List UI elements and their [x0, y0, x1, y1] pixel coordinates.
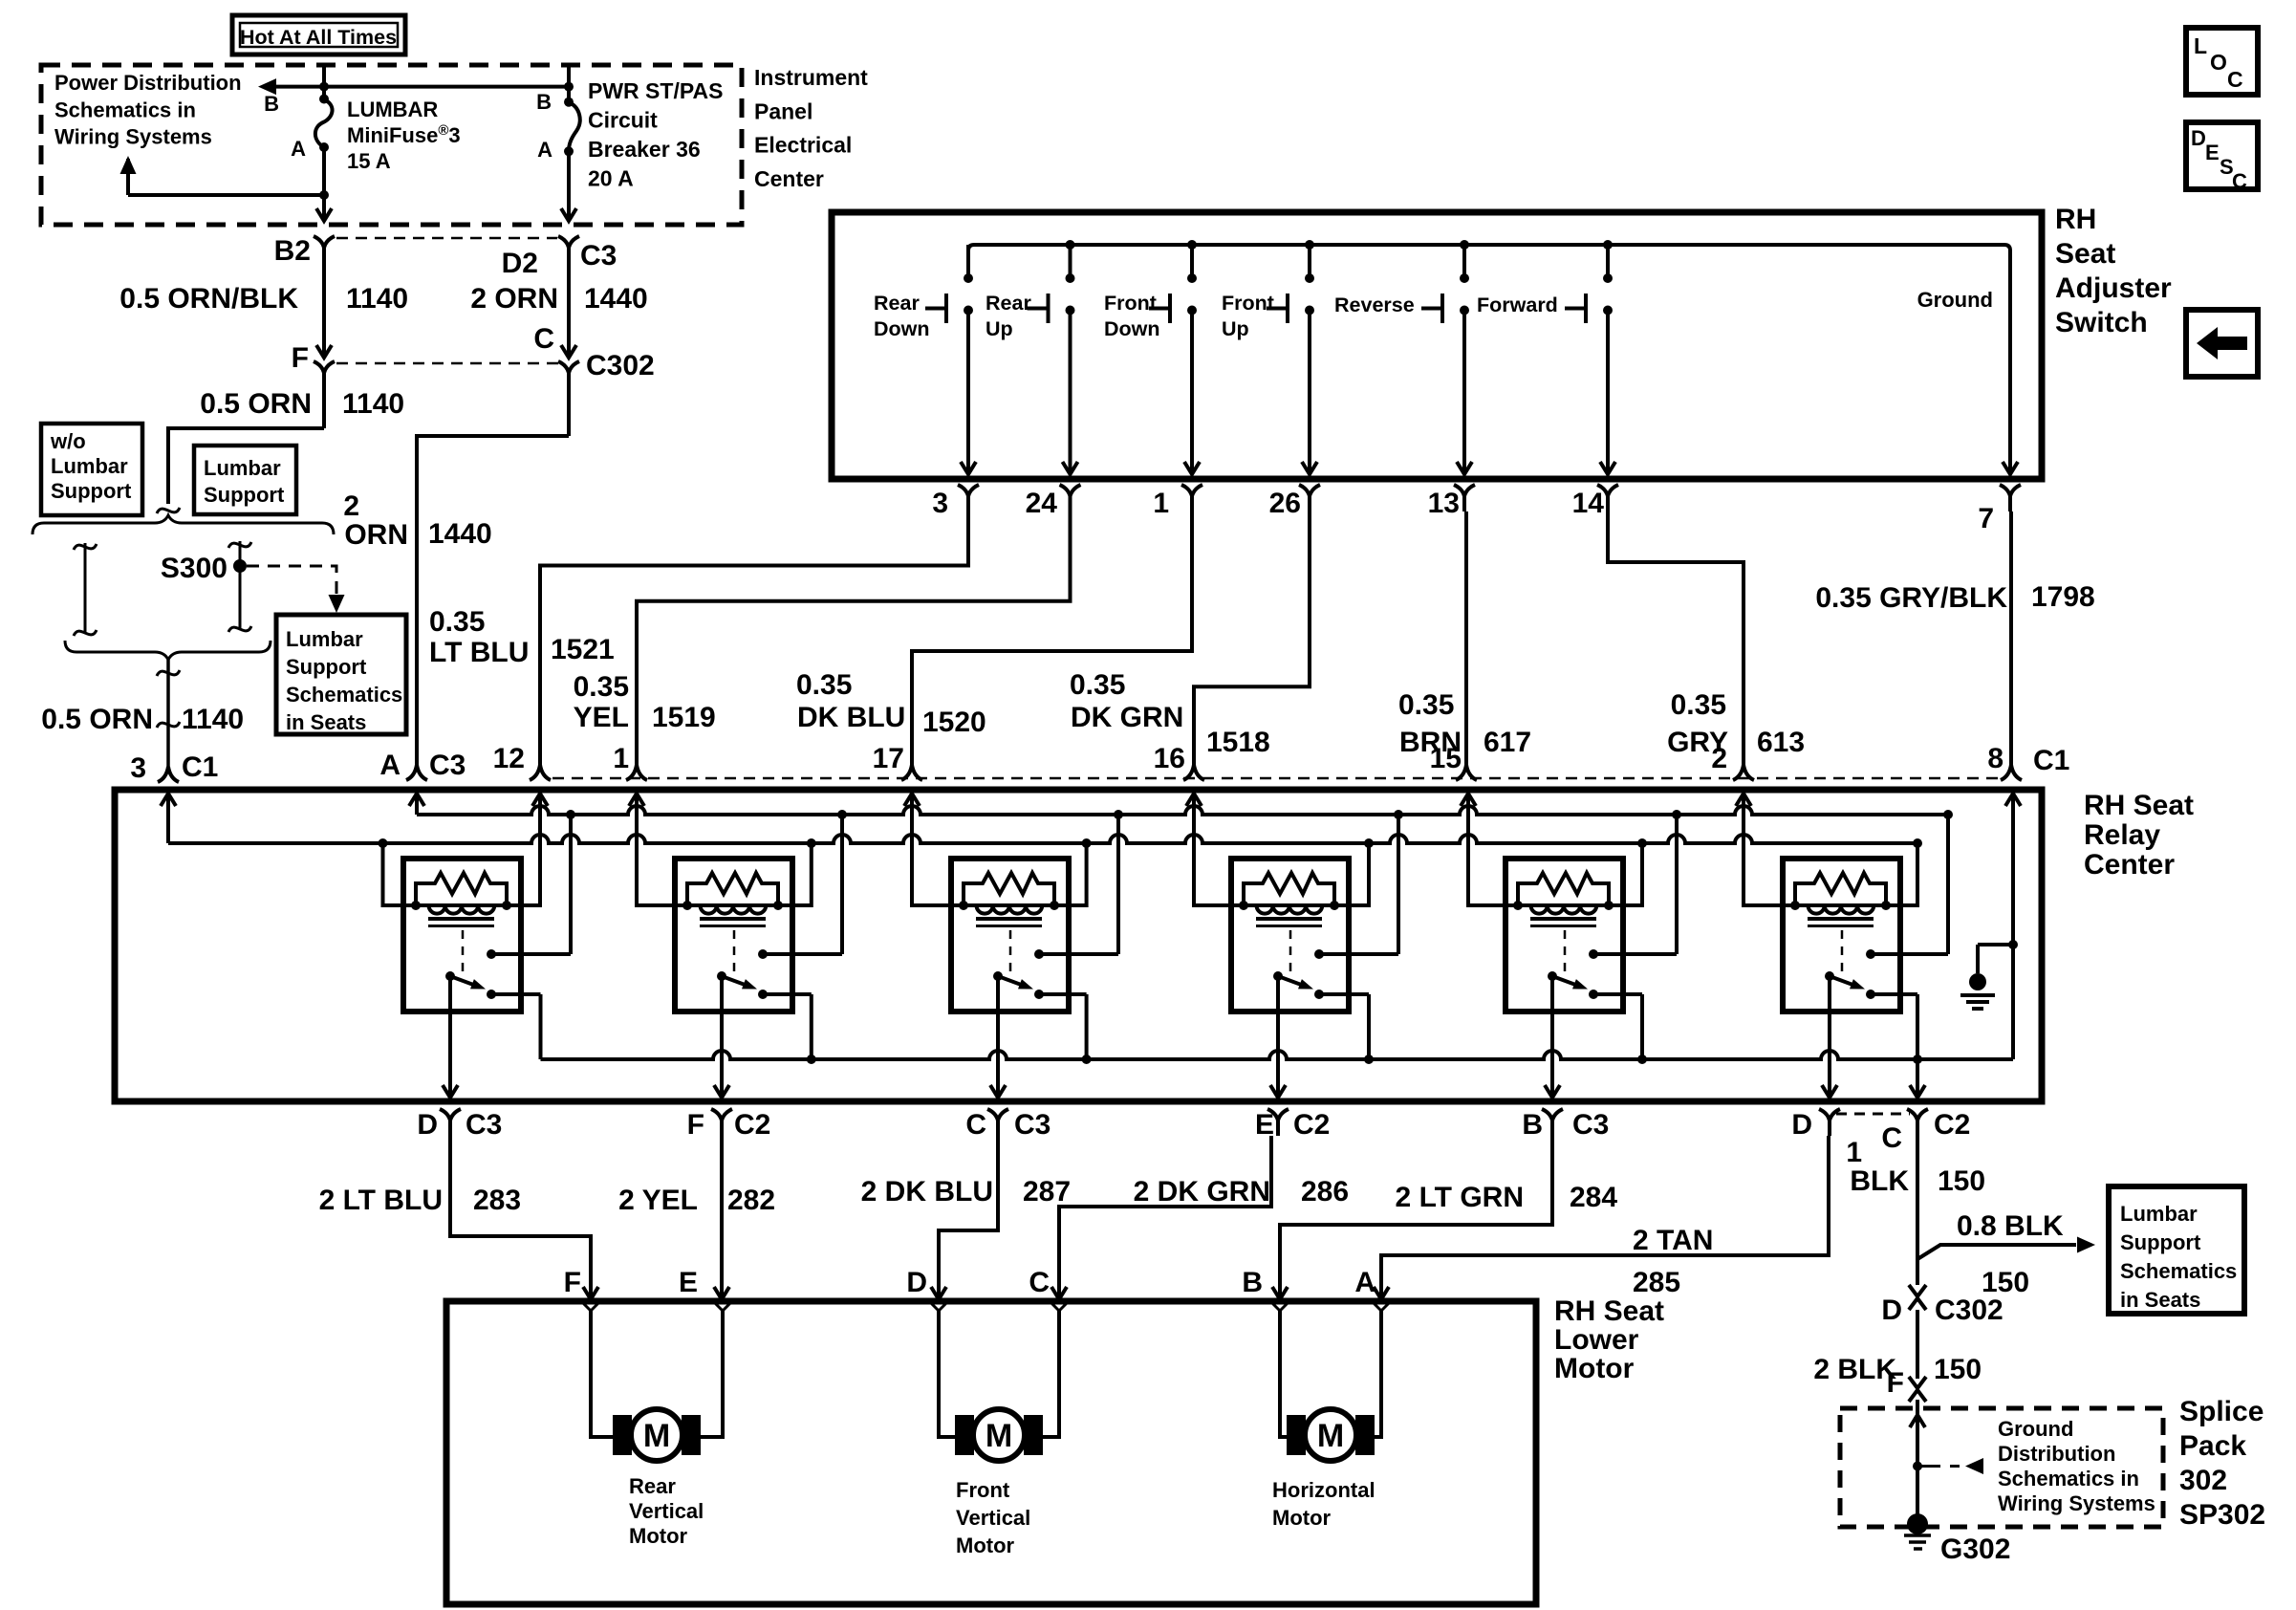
relay K1 movable arm	[445, 971, 455, 981]
svg-text:B: B	[264, 92, 279, 116]
wire: pin feed to K5 coil left	[1468, 794, 1518, 905]
svg-text:0.35: 0.35	[574, 671, 629, 703]
svg-text:C: C	[1029, 1267, 1050, 1298]
arrow: into F	[316, 345, 332, 358]
svg-text:E: E	[679, 1267, 698, 1298]
svg-text:RH Seat: RH Seat	[1554, 1295, 1664, 1327]
svg-text:ORN: ORN	[344, 519, 408, 551]
box: RH Seat Adjuster Switch	[832, 212, 2042, 479]
connector: relay center pin 15	[1456, 765, 1477, 780]
switch S4 actuator	[1286, 294, 1289, 323]
connector: relay center pin 12	[530, 765, 551, 780]
ground symbol in relay center	[1978, 943, 2013, 946]
arrow: C2 ground output	[1916, 1059, 1919, 1096]
wire: pin feed to K4 coil left	[1194, 794, 1244, 905]
wire: pin 26 to connector 16 (0.35 DK GRN 1518)	[1194, 511, 1310, 765]
relay K2 coil	[687, 903, 778, 907]
relay K6 fixed contact	[1866, 949, 1875, 959]
switch S3 Front Down contacts	[1190, 245, 1194, 278]
svg-text:287: 287	[1023, 1176, 1071, 1207]
wire: pin 12 to K1 coil right	[507, 794, 540, 905]
svg-text:RH Seat: RH Seat	[2084, 790, 2194, 821]
wire: feeder2 drop to K2 coil right	[778, 843, 812, 905]
svg-text:Forward: Forward	[1477, 294, 1558, 316]
arrow: into lumbar support schematics box	[2077, 1237, 2095, 1253]
svg-text:F: F	[1887, 1367, 1904, 1399]
svg-text:1140: 1140	[346, 283, 408, 315]
relay K2 movable arm	[717, 971, 726, 981]
svg-text:C: C	[1881, 1122, 1902, 1154]
svg-text:Lower: Lower	[1554, 1324, 1639, 1356]
svg-text:C1: C1	[182, 751, 218, 783]
junction dots feeder2	[379, 838, 388, 848]
svg-text:PWR ST/PAS: PWR ST/PAS	[588, 78, 723, 103]
connector C C302	[558, 361, 579, 373]
motor M1 feed wires	[591, 1311, 614, 1437]
svg-text:Support: Support	[2120, 1230, 2201, 1254]
svg-text:M: M	[643, 1418, 670, 1454]
svg-text:2 DK GRN: 2 DK GRN	[1134, 1176, 1270, 1207]
arrow: switch S1 pin exit	[961, 462, 976, 474]
wire: D C3 to motor F (2 LT BLU 283)	[450, 1136, 591, 1297]
wire: fixed drop from feeder1 K5	[1675, 815, 1679, 954]
svg-text:D: D	[2191, 126, 2206, 150]
svg-text:Pack: Pack	[2179, 1430, 2246, 1462]
arrow: pin entry at x=666	[629, 794, 644, 806]
arrow: switch S3 pin exit	[1184, 462, 1200, 474]
connector: switch pin 1	[1181, 485, 1202, 496]
switch S3 actuator	[1168, 294, 1172, 323]
svg-text:1140: 1140	[342, 388, 404, 420]
arrow: wire into C3	[561, 208, 576, 221]
switch S2 actuator	[1047, 294, 1051, 323]
arrow: into motor D	[931, 1287, 946, 1299]
junction: bus tap switch 5	[1460, 240, 1469, 250]
connector: output F at x=755	[711, 1109, 732, 1120]
relay K2 resistor	[687, 873, 778, 905]
svg-text:0.35: 0.35	[1398, 689, 1454, 721]
svg-text:Lumbar: Lumbar	[286, 627, 363, 651]
svg-text:Center: Center	[2084, 849, 2175, 881]
brace upper	[32, 515, 334, 534]
wire: K4 output	[1276, 976, 1280, 1096]
junction: splice S302	[1913, 1462, 1922, 1471]
svg-text:C3: C3	[466, 1109, 502, 1141]
arrow: into motor C	[1051, 1287, 1067, 1299]
wire: B2 to F	[322, 275, 326, 356]
svg-text:1: 1	[613, 743, 629, 774]
svg-text:2 TAN: 2 TAN	[1633, 1225, 1713, 1256]
wire: K2 arm to collection line	[810, 994, 813, 1059]
switch S5 Reverse contacts	[1462, 245, 1466, 278]
svg-text:Hot At All Times: Hot At All Times	[240, 26, 397, 49]
relay K2 armature link	[733, 930, 736, 971]
svg-text:E: E	[2205, 141, 2220, 164]
svg-text:Rear: Rear	[986, 292, 1031, 315]
wire: fixed drop from feeder1 K1	[569, 815, 573, 954]
connector: output C2 ground	[1907, 1109, 1928, 1120]
svg-text:Schematics in: Schematics in	[1998, 1467, 2139, 1490]
junction dots feeder1	[566, 810, 575, 819]
connector C3 at D2	[558, 236, 579, 248]
svg-text:A: A	[291, 137, 306, 161]
connector F into splice pack	[1909, 1377, 1926, 1388]
relay K3 core	[976, 917, 1042, 921]
svg-text:2: 2	[343, 490, 359, 522]
svg-text:7: 7	[1978, 503, 1994, 534]
svg-text:1521: 1521	[551, 634, 615, 665]
svg-text:Adjuster: Adjuster	[2055, 272, 2172, 304]
wire: C302 to A C3	[417, 436, 569, 765]
wire: pin 7 to connector 8 C1 (0.35 GRY/BLK 1798)	[2009, 511, 2013, 765]
arrow: to power distribution (left)	[258, 78, 276, 95]
switch S5 actuator	[1440, 294, 1444, 323]
wire: feeder2 drop to K6 coil right	[1886, 843, 1917, 905]
connector: output B at x=1624	[1542, 1109, 1563, 1120]
arrow: switch S4 pin exit	[1302, 462, 1317, 474]
svg-text:16: 16	[1154, 743, 1185, 774]
svg-text:C: C	[533, 323, 554, 355]
svg-text:A: A	[537, 138, 552, 162]
svg-text:Schematics in: Schematics in	[54, 98, 196, 121]
relay K3 resistor	[964, 873, 1054, 905]
arrow: K6 output into box edge	[1822, 1085, 1837, 1098]
box: Lumbar Support Schematics in Seats	[276, 615, 406, 734]
arrow: pin entry at x=565	[532, 794, 548, 806]
svg-text:1: 1	[1846, 1137, 1862, 1168]
relay K3 front up box	[951, 859, 1069, 1012]
svg-text:Ground: Ground	[1917, 288, 1993, 312]
svg-text:2: 2	[1711, 743, 1727, 774]
box: RH Seat Relay Center	[115, 790, 2042, 1101]
junction dots collection line	[807, 1055, 816, 1064]
connector A C3	[406, 765, 427, 780]
wire: pin 14 to connector 2 (0.35 GRY 613)	[1608, 511, 1744, 765]
relay K6 movable arm	[1825, 971, 1834, 981]
svg-text:w/o: w/o	[50, 429, 86, 453]
relay K1 armature link	[462, 930, 465, 971]
relay K4 core	[1256, 917, 1322, 921]
svg-text:Vertical: Vertical	[956, 1506, 1030, 1530]
svg-text:L: L	[2194, 33, 2207, 58]
switch S6 actuator	[1584, 294, 1588, 323]
relay K5 resistor	[1518, 873, 1609, 905]
wire: feeder2 drop to K3 coil right	[1054, 843, 1087, 905]
relay K1 core	[428, 917, 494, 921]
box: back arrow	[2186, 310, 2258, 377]
arrow: into lumbar support schematics box	[329, 595, 345, 613]
svg-text:Motor: Motor	[1554, 1353, 1635, 1384]
svg-text:LUMBAR: LUMBAR	[347, 98, 438, 121]
arrow: into motor B	[1272, 1287, 1288, 1299]
relay K6 coil	[1795, 903, 1886, 907]
svg-text:A: A	[379, 750, 401, 781]
wire: fixed drop from feeder1 K4	[1397, 815, 1400, 954]
wire: option merge down to 3 C1	[166, 660, 170, 767]
svg-text:Front: Front	[956, 1478, 1010, 1502]
relay K6 core	[1808, 917, 1874, 921]
svg-text:Panel: Panel	[754, 98, 812, 123]
relay K6 resistor	[1795, 873, 1886, 905]
svg-text:in Seats: in Seats	[286, 710, 366, 734]
relay K5 movable arm	[1548, 971, 1557, 981]
svg-text:BLK: BLK	[1850, 1165, 1909, 1197]
svg-text:17: 17	[873, 743, 904, 774]
svg-text:DK GRN: DK GRN	[1071, 702, 1183, 733]
svg-text:M: M	[1317, 1418, 1344, 1454]
relay K1 rear up box	[403, 859, 521, 1012]
svg-text:B: B	[1242, 1267, 1263, 1298]
wire: fuse A down to B2	[322, 147, 326, 219]
relay K4 resistor	[1244, 873, 1334, 905]
connector F C302	[314, 361, 335, 373]
arrow: wire into B2	[316, 208, 332, 221]
switch S2 Rear Up contacts	[1069, 245, 1072, 278]
svg-text:D: D	[1881, 1295, 1902, 1326]
junction: bus tap switch 6	[1603, 240, 1613, 250]
switch S6 Forward contacts	[1606, 245, 1610, 278]
svg-text:D2: D2	[502, 248, 538, 279]
svg-text:F: F	[292, 342, 309, 374]
wire: splice input	[1916, 1400, 1919, 1524]
box: Lumbar Support Schematics in Seats (right)	[2109, 1186, 2244, 1314]
relay K1 fixed contact	[487, 949, 496, 959]
box: w/o Lumbar Support	[41, 424, 142, 515]
wire: K2 output	[720, 976, 724, 1096]
svg-text:286: 286	[1301, 1176, 1349, 1207]
box: Hot At All Times	[232, 15, 405, 54]
svg-text:Rear: Rear	[629, 1474, 676, 1498]
motor M3 horizontal entry notches	[1271, 1302, 1289, 1311]
svg-text:Schematics: Schematics	[2120, 1259, 2237, 1283]
junction: hot bus left	[319, 82, 329, 92]
connector row B2 / D2 C3	[336, 237, 557, 240]
svg-text:Wiring Systems: Wiring Systems	[1998, 1491, 2155, 1515]
wire: fixed drop from feeder1 K6	[1946, 815, 1950, 954]
svg-text:C302: C302	[1935, 1295, 2004, 1326]
svg-text:2 LT GRN: 2 LT GRN	[1396, 1182, 1524, 1213]
wire: F down jog to lumbar option	[168, 428, 324, 504]
svg-text:Vertical: Vertical	[629, 1499, 704, 1523]
svg-text:Lumbar: Lumbar	[2120, 1202, 2198, 1226]
svg-text:0.35: 0.35	[1671, 689, 1726, 721]
svg-text:2 YEL: 2 YEL	[618, 1185, 698, 1216]
wire: C3 to C C302	[567, 275, 571, 356]
svg-text:Motor: Motor	[956, 1534, 1015, 1557]
svg-text:0.5 ORN: 0.5 ORN	[41, 704, 153, 735]
svg-text:Switch: Switch	[2055, 307, 2148, 338]
connector: relay center pin 2	[1733, 765, 1754, 780]
wire: pin 3 to connector 12 (0.35 LT BLU 1521)	[540, 511, 968, 765]
wire: feeder2 drop to K5 coil right	[1609, 843, 1642, 905]
arrow: into motor A	[1374, 1287, 1389, 1299]
relay K6 forward box	[1783, 859, 1900, 1012]
wire: pin 24 to connector 1 (0.35 YEL 1519)	[637, 511, 1071, 765]
connector row dashed line	[552, 777, 2005, 780]
arrow: K2 output into box edge	[714, 1085, 729, 1098]
relay K6 arm contact	[1866, 990, 1875, 999]
svg-text:0.35: 0.35	[429, 606, 485, 638]
arrow: pin entry at x=1249	[1186, 794, 1202, 806]
wire: collection line to ground riser	[2011, 794, 2015, 1059]
svg-text:24: 24	[1026, 488, 1058, 519]
box: DESC	[2186, 122, 2258, 189]
connector: relay center pin 8 C1	[2001, 765, 2022, 780]
junction: bus tap switch 3	[1187, 240, 1197, 250]
relay K4 arm contact	[1314, 990, 1324, 999]
relay K5 coil	[1518, 903, 1609, 907]
relay K4 front down box	[1231, 859, 1349, 1012]
svg-text:B2: B2	[274, 235, 311, 267]
connector: switch pin 3	[958, 485, 979, 496]
svg-text:Down: Down	[874, 317, 930, 340]
svg-text:12: 12	[493, 743, 525, 774]
wire: E C2 to motor C (2 DK GRN 286)	[1059, 1136, 1271, 1297]
svg-text:Seat: Seat	[2055, 238, 2115, 270]
arrow: pin entry at x=1824	[1736, 794, 1751, 806]
wire: K4 arm to collection line	[1367, 994, 1371, 1059]
svg-text:1440: 1440	[428, 518, 492, 550]
junction: fuse output	[319, 190, 329, 200]
arrow: K1 output into box edge	[443, 1085, 458, 1098]
svg-text:Support: Support	[51, 479, 132, 503]
switch S1 actuator	[944, 294, 948, 323]
junction: bus tap switch 4	[1305, 240, 1314, 250]
svg-text:Front: Front	[1104, 292, 1157, 315]
svg-text:RH: RH	[2055, 204, 2096, 235]
splice S300	[233, 559, 247, 573]
arrow: pin entry at x=1536	[1461, 794, 1476, 806]
wire: option path S300	[239, 541, 242, 629]
connector: output D at x=1914	[1819, 1109, 1840, 1120]
svg-text:Front: Front	[1222, 292, 1274, 315]
arrow: up into power distribution	[120, 156, 137, 174]
arrow: pin entry at x=954	[904, 794, 920, 806]
dashed box: Splice Pack SP302	[1840, 1408, 2163, 1527]
svg-text:613: 613	[1757, 727, 1805, 758]
svg-text:Electrical: Electrical	[754, 133, 852, 158]
wire: pin 1 to connector 17 (0.35 DK BLU 1520)	[912, 511, 1192, 765]
svg-text:150: 150	[1934, 1354, 1982, 1385]
connector: output D at x=471	[440, 1109, 461, 1120]
svg-text:D: D	[417, 1109, 438, 1141]
wire: C2 to D C302 (1 BLK 150)	[1916, 1136, 1919, 1285]
svg-text:Circuit: Circuit	[588, 108, 658, 133]
wire: K5 output	[1550, 976, 1554, 1096]
motor M2 front vertical	[955, 1415, 974, 1455]
arrow: into motor E	[714, 1287, 729, 1299]
svg-text:F: F	[564, 1267, 581, 1298]
svg-text:Splice: Splice	[2179, 1396, 2264, 1427]
wire: hot bus horizontal	[266, 85, 569, 89]
svg-text:Power Distribution: Power Distribution	[54, 71, 242, 95]
relay K4 movable arm	[1273, 971, 1283, 981]
svg-text:8: 8	[1987, 743, 2004, 774]
arrow: K4 output into box edge	[1270, 1085, 1286, 1098]
wire: F C2 to motor E (2 YEL 282)	[720, 1136, 724, 1297]
arrow: ground pin 7 exit	[2003, 462, 2018, 474]
svg-text:D: D	[906, 1267, 927, 1298]
svg-text:M: M	[986, 1418, 1012, 1454]
svg-text:SP302: SP302	[2179, 1499, 2265, 1531]
svg-text:C3: C3	[1014, 1109, 1051, 1141]
wire: fixed drop from feeder1 K2	[840, 815, 844, 954]
connector: switch pin 26	[1299, 485, 1320, 496]
ground G302	[1907, 1513, 1928, 1534]
relay K1 coil	[416, 903, 507, 907]
motor M1 rear vertical	[613, 1415, 632, 1455]
arrow: pin entry at x=2106	[2005, 794, 2021, 806]
arrow: K3 output into box edge	[990, 1085, 1006, 1098]
relay K2 arm contact	[758, 990, 768, 999]
svg-text:B: B	[1522, 1109, 1543, 1141]
svg-text:C3: C3	[580, 240, 617, 272]
svg-text:14: 14	[1572, 488, 1605, 519]
motor M3 horizontal	[1287, 1415, 1306, 1455]
connector: switch pin 7	[2000, 485, 2021, 496]
relay K5 fixed contact	[1589, 949, 1598, 959]
relay K2 rear down box	[675, 859, 792, 1012]
wire: pin feed to K6 coil left	[1744, 794, 1795, 905]
arrow: into C	[561, 345, 576, 358]
arrow: pin entry at x=436	[409, 794, 424, 806]
svg-text:A: A	[1354, 1267, 1375, 1298]
wire: fixed drop from feeder1 K3	[1116, 815, 1120, 954]
relay K2 fixed contact	[758, 949, 768, 959]
svg-text:1798: 1798	[2031, 581, 2095, 613]
svg-text:Reverse: Reverse	[1334, 294, 1415, 316]
connector: switch pin 24	[1060, 485, 1081, 496]
brace lower	[65, 641, 271, 660]
connector 3 C1	[158, 767, 179, 782]
svg-text:1518: 1518	[1206, 727, 1270, 758]
arrow: switch S6 pin exit	[1600, 462, 1615, 474]
svg-text:1: 1	[1153, 488, 1169, 519]
svg-text:Motor: Motor	[1272, 1506, 1332, 1530]
wire: pin 3 C1 entry to feeder2	[166, 794, 170, 843]
relay K5 arm contact	[1589, 990, 1598, 999]
svg-text:YEL: YEL	[574, 702, 629, 733]
svg-text:Up: Up	[986, 317, 1013, 340]
wire: K3 output	[996, 976, 1000, 1096]
wire: D (K6) to motor A (2 TAN 285)	[1381, 1136, 1829, 1297]
relay K3 fixed contact	[1034, 949, 1044, 959]
svg-text:2 ORN: 2 ORN	[470, 283, 558, 315]
relay K3 coil	[964, 903, 1054, 907]
svg-text:Ground: Ground	[1998, 1417, 2073, 1441]
svg-text:O: O	[2210, 50, 2227, 75]
wire: pin feed to K3 coil left	[912, 794, 964, 905]
relay K5 reverse box	[1505, 859, 1623, 1012]
relay K1 arm contact	[487, 990, 496, 999]
relay K3 movable arm	[993, 971, 1003, 981]
wire: C C3 to motor D (2 DK BLU 287)	[939, 1136, 998, 1297]
relay K5 armature link	[1564, 930, 1567, 971]
svg-text:C3: C3	[429, 750, 466, 781]
wire: K6 output	[1828, 976, 1831, 1096]
svg-text:Schematics: Schematics	[286, 683, 402, 707]
svg-text:1520: 1520	[922, 707, 986, 738]
connector: relay center pin 16	[1183, 765, 1204, 780]
svg-text:Rear: Rear	[874, 292, 920, 315]
wire: pin A C3 entry to feeder1	[415, 794, 419, 815]
motor M2 feed wires	[939, 1311, 956, 1437]
svg-text:Lumbar: Lumbar	[51, 454, 128, 478]
svg-text:D: D	[1791, 1109, 1812, 1141]
svg-text:Center: Center	[754, 166, 824, 191]
svg-text:26: 26	[1269, 488, 1301, 519]
junction: bus tap switch 2	[1066, 240, 1075, 250]
